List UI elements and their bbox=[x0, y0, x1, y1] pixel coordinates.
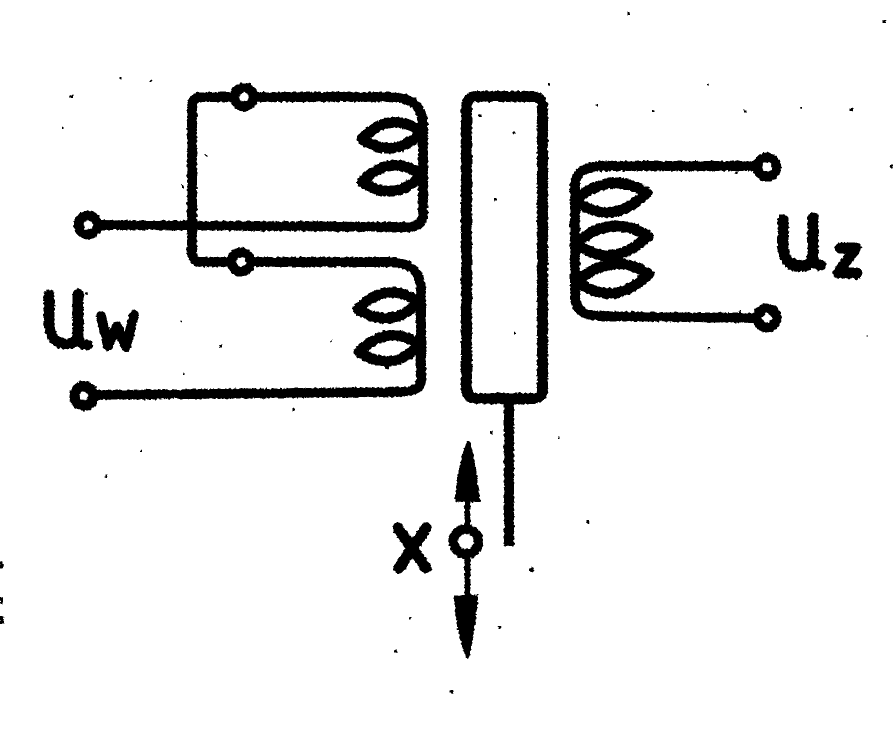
terminal T5 (right upper uz) bbox=[758, 158, 777, 177]
label uw: subscript w bbox=[101, 315, 134, 347]
terminal T6 (right lower uz) bbox=[758, 309, 777, 328]
inductor L1 primary top winding outline bbox=[392, 97, 423, 228]
label x: stroke 1 bbox=[398, 528, 426, 568]
label uz: letter u bbox=[783, 218, 813, 266]
wire: arrow shaft upper bbox=[465, 500, 471, 528]
terminal T1 (top tap) bbox=[235, 88, 254, 107]
label x: stroke 2 bbox=[399, 528, 426, 568]
arrow: up motion arrow bbox=[455, 441, 480, 502]
wire: secondary top lead bbox=[598, 161, 755, 171]
terminal T4 (left lower uw) bbox=[75, 387, 94, 406]
inductor L2 loop 2 bbox=[359, 335, 420, 361]
terminal T3 (left upper uw) bbox=[79, 216, 98, 235]
inductor L3 loop 2 bbox=[576, 226, 648, 255]
inductor L3 loop 1 bbox=[575, 183, 647, 212]
inductor L1 loop 1 bbox=[362, 122, 422, 148]
wire: from left terminal uw+ to top winding return bbox=[96, 225, 408, 227]
label uz: subscript z bbox=[838, 248, 857, 273]
wire: arrow shaft lower bbox=[465, 556, 471, 597]
inductor L2 loop 1 bbox=[358, 292, 419, 318]
label uw: letter u bbox=[49, 294, 78, 344]
inductor L3 secondary winding outline bbox=[575, 166, 604, 316]
wire: vertical link between winding taps bbox=[192, 97, 394, 262]
node: displacement reference circle bbox=[454, 529, 479, 554]
label uz: u exit tail bbox=[813, 254, 821, 265]
inductor L3 loop 3 bbox=[577, 264, 649, 293]
inductor L1 loop 2 bbox=[362, 165, 422, 191]
wire: from left terminal uw- to bottom winding return bbox=[94, 392, 400, 395]
wire: secondary bottom lead bbox=[598, 316, 755, 318]
terminal T2 (middle tap) bbox=[232, 253, 251, 272]
label uw: u exit tail bbox=[78, 331, 88, 345]
scan artifact: left edge marks bbox=[0, 561, 3, 569]
inductor L2 primary bottom winding outline bbox=[390, 262, 421, 392]
core: actuating rod bbox=[504, 400, 514, 546]
core: movable iron core rectangle bbox=[467, 97, 543, 399]
arrow: down motion arrow bbox=[454, 595, 478, 659]
